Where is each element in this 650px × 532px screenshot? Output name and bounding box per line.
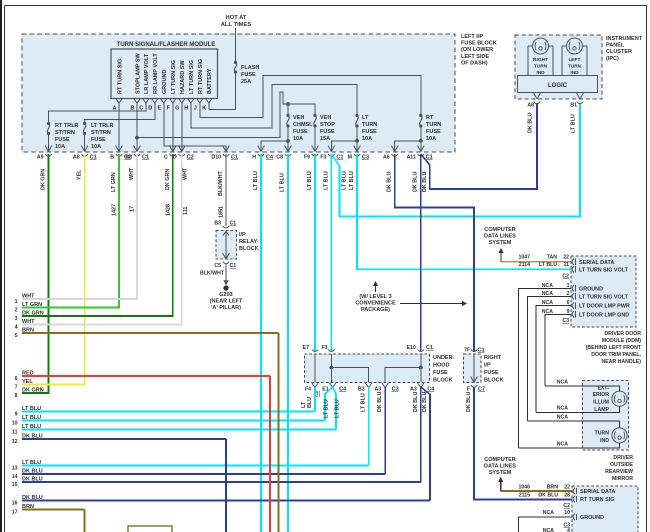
svg-text:11: 11 bbox=[564, 262, 570, 268]
svg-text:TURN: TURN bbox=[426, 122, 441, 128]
wire DK BLU branch from A11 to IPC pin A8 (right turn ind) bbox=[421, 103, 537, 192]
svg-text:BLU: BLU bbox=[307, 397, 313, 408]
svg-text:A9: A9 bbox=[37, 155, 44, 161]
svg-text:GROUND: GROUND bbox=[579, 286, 603, 292]
svg-text:PANEL: PANEL bbox=[606, 43, 625, 49]
connector crossing A9 bbox=[37, 146, 52, 161]
svg-text:4: 4 bbox=[15, 325, 18, 331]
svg-text:VEH: VEH bbox=[320, 115, 331, 121]
wire YEL from A8 to row 7 bbox=[22, 154, 85, 385]
svg-text:ALL TIMES: ALL TIMES bbox=[221, 22, 252, 28]
wire LT BLU 2114 from M/C3 to DDM pin 11 bbox=[349, 154, 571, 269]
svg-text:COMPUTER: COMPUTER bbox=[484, 227, 516, 233]
module pin H (LT TURN SIG) bbox=[184, 60, 195, 112]
svg-text:RIGHT: RIGHT bbox=[484, 355, 502, 361]
svg-text:DK BLU: DK BLU bbox=[422, 172, 428, 192]
svg-text:BLK/WHT: BLK/WHT bbox=[218, 170, 224, 196]
svg-text:H: H bbox=[252, 155, 256, 161]
wire: pin F to cavity C bbox=[172, 103, 174, 152]
svg-text:INSTRUMENT: INSTRUMENT bbox=[606, 36, 643, 42]
svg-text:LEFT SIDE: LEFT SIDE bbox=[461, 54, 489, 60]
svg-text:A8: A8 bbox=[73, 155, 80, 161]
wire WHT 17 from B8 to row 1 bbox=[22, 154, 137, 299]
left I/P fuse block (dashed region) bbox=[22, 34, 455, 152]
IPC logic block bbox=[518, 76, 598, 93]
DDM pin 1 GROUND (NCA wire) bbox=[518, 283, 603, 448]
svg-text:(W/ LEVEL 3: (W/ LEVEL 3 bbox=[359, 294, 391, 300]
svg-text:(BEHIND LEFT FRONT: (BEHIND LEFT FRONT bbox=[586, 345, 642, 351]
underhood fuse block pin F4 bbox=[305, 383, 318, 393]
svg-text:ST/TRN: ST/TRN bbox=[55, 130, 75, 136]
wire row 15 (DK BLU) bbox=[12, 477, 421, 489]
svg-text:WHT: WHT bbox=[129, 167, 135, 180]
wire TAN 1047 serial data to DDM pin 22 bbox=[498, 248, 571, 262]
DDM pin 2 LT TURN SIG VOLT (NCA wire) bbox=[528, 291, 629, 421]
svg-text:LOGIC: LOGIC bbox=[548, 83, 568, 89]
svg-text:A6: A6 bbox=[383, 155, 390, 161]
svg-text:12: 12 bbox=[12, 439, 18, 445]
module pin K (BATTERY) bbox=[202, 68, 213, 111]
svg-text:M: M bbox=[348, 155, 352, 161]
svg-text:DK BLU: DK BLU bbox=[528, 113, 534, 133]
fuse: LT TURN FUSE 10A bbox=[355, 114, 377, 142]
wire row 14 (DK BLU) bbox=[12, 469, 385, 481]
svg-text:1047: 1047 bbox=[518, 255, 530, 261]
svg-text:TAN: TAN bbox=[547, 255, 558, 261]
svg-text:DK BLU: DK BLU bbox=[412, 172, 418, 192]
wire row 2 (LT GRN) bbox=[15, 302, 119, 314]
svg-text:RELAY: RELAY bbox=[239, 239, 257, 245]
svg-text:B1: B1 bbox=[570, 103, 577, 109]
svg-text:J: J bbox=[194, 106, 197, 112]
svg-text:DATA LINES: DATA LINES bbox=[484, 234, 516, 240]
svg-text:CLUSTER: CLUSTER bbox=[606, 49, 632, 55]
wire LT BLU F4 to row 9 bbox=[301, 387, 315, 412]
wire NCA to ext illum lamp gnd bbox=[536, 406, 619, 413]
svg-text:FUSE: FUSE bbox=[426, 129, 441, 135]
svg-text:GROUND: GROUND bbox=[580, 515, 604, 521]
svg-text:HAZARD SW: HAZARD SW bbox=[180, 60, 186, 94]
svg-text:DK BLU: DK BLU bbox=[422, 392, 428, 412]
svg-text:8: 8 bbox=[15, 393, 18, 399]
connector crossing D10 bbox=[211, 146, 238, 161]
wire NCA to mirror turn ind pwr bbox=[528, 415, 620, 428]
wire: LT TURN fuse to crossings M and F3 bbox=[331, 126, 359, 152]
svg-text:11: 11 bbox=[12, 430, 18, 436]
IPC pin A8 bbox=[527, 93, 540, 133]
svg-text:A3: A3 bbox=[374, 387, 381, 393]
wire LT BLU from H/C4 down to bottom edge bbox=[253, 154, 261, 532]
wire BRN row 5 drop to bottom bbox=[278, 333, 280, 532]
connector crossing C bbox=[164, 146, 176, 161]
svg-text:CONVENIENCE: CONVENIENCE bbox=[355, 301, 396, 307]
IPC pin B1 bbox=[570, 93, 583, 133]
svg-text:SYSTEM: SYSTEM bbox=[489, 470, 512, 476]
svg-text:NCA: NCA bbox=[557, 380, 568, 386]
svg-text:LT: LT bbox=[362, 115, 369, 121]
svg-text:BLOCK: BLOCK bbox=[433, 378, 453, 384]
svg-text:1428: 1428 bbox=[165, 204, 171, 216]
svg-text:ILLUM: ILLUM bbox=[593, 400, 609, 406]
wire row 3 (DK GRN) bbox=[15, 311, 173, 323]
svg-text:1046: 1046 bbox=[518, 485, 530, 491]
connector C2 tag under pin F4 bbox=[314, 391, 320, 398]
wire DK BLU row 12 drop to bottom bbox=[225, 439, 227, 532]
labels for DK BLU 2115 wire bbox=[519, 493, 570, 499]
wire: pin B (stoplamp sw) junction to CHMSL/STOP fuses bbox=[135, 92, 315, 152]
svg-text:COMPUTER: COMPUTER bbox=[484, 457, 516, 463]
svg-text:B3: B3 bbox=[358, 387, 365, 393]
svg-text:E10: E10 bbox=[407, 345, 416, 351]
svg-text:14: 14 bbox=[12, 474, 18, 480]
svg-text:PACKAGE): PACKAGE) bbox=[361, 307, 390, 313]
svg-text:1: 1 bbox=[15, 299, 18, 305]
svg-text:E: E bbox=[157, 106, 161, 112]
svg-text:LT TURN SIG: LT TURN SIG bbox=[171, 60, 177, 94]
wire: VEH CHMSL fuse to crossings C8 and H bbox=[261, 126, 290, 152]
labels for LT BLU 2114 wire bbox=[519, 262, 569, 268]
svg-text:FUSE: FUSE bbox=[241, 72, 256, 78]
wire: pin E (ground) to cavity D10 bbox=[164, 103, 226, 152]
svg-text:DK GRN: DK GRN bbox=[165, 169, 171, 190]
fuse: LT TRLR ST/TRN FUSE 10A bbox=[83, 122, 114, 152]
svg-text:LT BLU: LT BLU bbox=[307, 171, 313, 190]
module pin E (GROUND) bbox=[157, 70, 168, 112]
svg-text:DRIVER DOOR: DRIVER DOOR bbox=[604, 331, 641, 337]
svg-text:F3: F3 bbox=[321, 345, 327, 351]
DDM caption bbox=[586, 331, 642, 365]
svg-text:17: 17 bbox=[12, 510, 18, 516]
svg-text:15: 15 bbox=[12, 482, 18, 488]
wire row 16 (DK BLU) bbox=[12, 495, 430, 507]
wire NCA to ext illum lamp pwr bbox=[545, 380, 620, 392]
svg-text:RT TURN SIG: RT TURN SIG bbox=[580, 497, 614, 503]
wire DK BLU A3/C4 to row 15 bbox=[413, 387, 421, 482]
svg-text:LT BLU: LT BLU bbox=[349, 171, 355, 190]
wire LT GRN 1427 from B to row 2 bbox=[22, 154, 119, 308]
svg-text:DK BLU: DK BLU bbox=[466, 392, 472, 412]
svg-text:28: 28 bbox=[564, 493, 570, 499]
module pin F (LT TURN SIG) bbox=[167, 60, 177, 112]
wire: RT TURN fuse to crossings A11 and A6 bbox=[395, 126, 423, 152]
svg-text:B: B bbox=[110, 155, 114, 161]
svg-text:A11: A11 bbox=[407, 155, 416, 161]
svg-text:RT TURN SIG: RT TURN SIG bbox=[117, 59, 123, 94]
svg-text:WHT: WHT bbox=[183, 167, 189, 180]
connector crossing F9 bbox=[304, 146, 318, 161]
svg-text:DK BLU: DK BLU bbox=[538, 493, 558, 499]
wire DK GRN from A9 to row 8 bbox=[22, 154, 49, 393]
wire WHT 111 from D to row 4 bbox=[22, 154, 189, 325]
fuse: VEH STOP FUSE 15A bbox=[313, 114, 335, 142]
connector crossing A11 bbox=[407, 146, 433, 161]
svg-text:REARVIEW: REARVIEW bbox=[605, 469, 633, 475]
svg-text:FUSE: FUSE bbox=[55, 137, 70, 143]
wire DK BLU from A6 to right I/P fuse block bbox=[387, 154, 474, 352]
fuse: RT TURN FUSE 10A bbox=[419, 114, 441, 142]
svg-text:VEH: VEH bbox=[293, 115, 304, 121]
svg-text:RT TURN SIG: RT TURN SIG bbox=[198, 59, 204, 94]
wire DK BLU A3 to row 14 bbox=[377, 387, 385, 474]
svg-text:NCA: NCA bbox=[557, 406, 568, 412]
svg-text:LT GRN: LT GRN bbox=[111, 172, 117, 192]
svg-text:FLASH: FLASH bbox=[241, 65, 259, 71]
svg-text:F3: F3 bbox=[320, 155, 326, 161]
wire row 1 (WHT) bbox=[15, 294, 137, 306]
svg-text:RT: RT bbox=[426, 115, 434, 121]
wire: pin C (LR lamp volt) to RT TRLR fuse bbox=[49, 103, 146, 124]
svg-text:I/P: I/P bbox=[239, 232, 246, 238]
underhood fuse block pin B3 bbox=[358, 383, 372, 393]
svg-text:LT BLU: LT BLU bbox=[324, 399, 330, 418]
svg-text:'A' PILLAR): 'A' PILLAR) bbox=[211, 305, 241, 311]
ground G203 bbox=[210, 285, 243, 311]
svg-text:FUSE: FUSE bbox=[362, 129, 377, 135]
underhood fuse block internal wires bbox=[315, 354, 423, 383]
svg-text:E7: E7 bbox=[303, 345, 309, 351]
module pin A (RT TURN SIG) bbox=[113, 59, 124, 112]
svg-text:TURN: TURN bbox=[534, 64, 548, 70]
svg-text:(ON LOWER: (ON LOWER bbox=[461, 47, 493, 53]
svg-text:BLOCK: BLOCK bbox=[239, 246, 259, 252]
IPC label bbox=[606, 36, 643, 62]
svg-text:BLOCK: BLOCK bbox=[484, 378, 504, 384]
svg-text:B8: B8 bbox=[125, 155, 132, 161]
svg-text:TURN: TURN bbox=[362, 122, 377, 128]
passenger door module (bottom, cut off) bbox=[572, 486, 638, 532]
svg-text:SYSTEM: SYSTEM bbox=[489, 240, 512, 246]
svg-text:F: F bbox=[467, 387, 470, 393]
battery feed: HOT AT ALL TIMES bbox=[221, 15, 252, 62]
svg-text:LT BLU: LT BLU bbox=[361, 393, 367, 412]
svg-text:D: D bbox=[148, 106, 152, 112]
svg-text:LT BLU: LT BLU bbox=[539, 262, 557, 268]
connector crossing B8 bbox=[125, 146, 149, 161]
svg-text:G203: G203 bbox=[219, 292, 232, 298]
svg-text:10: 10 bbox=[12, 421, 18, 427]
svg-text:TURN SIGNAL/FLASHER MODULE: TURN SIGNAL/FLASHER MODULE bbox=[117, 42, 216, 48]
turn indicator lamp (mirror) bbox=[595, 428, 628, 444]
svg-text:1851: 1851 bbox=[219, 206, 225, 218]
wire DK BLU C4 branch to row 16 bbox=[421, 387, 430, 501]
svg-text:LT BLU: LT BLU bbox=[253, 171, 259, 190]
svg-text:10A: 10A bbox=[426, 136, 436, 142]
connector crossing A6 bbox=[383, 146, 398, 161]
svg-text:YEL: YEL bbox=[77, 169, 83, 180]
svg-text:DK GRN: DK GRN bbox=[41, 169, 47, 190]
svg-text:TURN: TURN bbox=[568, 64, 582, 70]
svg-text:CHMSL: CHMSL bbox=[293, 122, 313, 128]
left turn indicator lamp bbox=[562, 38, 587, 76]
driver outside rearview mirror assembly box bbox=[583, 381, 629, 451]
DDM pin row SERIAL DATA bbox=[572, 259, 614, 266]
svg-text:DK BLU: DK BLU bbox=[387, 172, 393, 192]
wire row 5 (BRN) bbox=[15, 328, 279, 340]
svg-text:LT TRLR: LT TRLR bbox=[91, 123, 114, 129]
PDM pin row (cut off) bbox=[543, 528, 570, 532]
wire DK BLU 2115 right I/P fuse block to PDM pin 28 bbox=[466, 387, 572, 500]
svg-text:DATA LINES: DATA LINES bbox=[484, 464, 516, 470]
wire BLK/WHT 1851 from D10 to I/P relay block bbox=[218, 154, 226, 226]
svg-text:FUSE: FUSE bbox=[320, 129, 335, 135]
wire RED row 6 drop to bottom bbox=[269, 376, 271, 532]
svg-text:IND: IND bbox=[600, 438, 609, 444]
PDM pin 10 ground (NCA wire) bbox=[518, 510, 604, 532]
wire: pin A to cavity B bbox=[118, 103, 120, 152]
svg-text:25A: 25A bbox=[241, 79, 251, 85]
wire: pin J (RT turn sig) to RT TURN fuse bbox=[200, 75, 421, 117]
svg-text:GROUND: GROUND bbox=[162, 70, 168, 94]
svg-text:6: 6 bbox=[15, 376, 18, 382]
svg-text:LT BLU: LT BLU bbox=[335, 399, 341, 418]
svg-text:LT TURN SIG VOLT: LT TURN SIG VOLT bbox=[579, 267, 629, 273]
svg-text:LT DOOR LMP GND: LT DOOR LMP GND bbox=[579, 312, 629, 318]
wire LT BLU B3 to row 13 bbox=[361, 387, 369, 466]
svg-text:DK BLU: DK BLU bbox=[377, 392, 383, 412]
svg-text:FUSE BLOCK: FUSE BLOCK bbox=[461, 41, 497, 47]
connector crossing B bbox=[110, 146, 131, 161]
svg-text:2: 2 bbox=[15, 308, 18, 314]
annotation: w/ level 3 convenience package bbox=[355, 281, 467, 313]
svg-text:10A: 10A bbox=[293, 136, 303, 142]
PDM pin 28 RT turn sig bbox=[573, 496, 614, 503]
svg-text:BRN: BRN bbox=[547, 485, 558, 491]
svg-text:F9: F9 bbox=[304, 155, 310, 161]
svg-text:RR LAMP VOLT: RR LAMP VOLT bbox=[153, 53, 159, 94]
svg-text:BATTERY: BATTERY bbox=[207, 68, 213, 94]
svg-text:C5: C5 bbox=[214, 263, 221, 269]
PDM pin 22 serial data bbox=[573, 488, 615, 495]
wire row 11 (LT BLU) bbox=[12, 424, 336, 436]
computer data lines system (lower) bbox=[484, 457, 516, 476]
connector crossing C8 bbox=[276, 146, 291, 161]
wire BRN row 17 drop to bottom bbox=[84, 510, 86, 532]
underhood fuse block pin A3 bbox=[410, 383, 435, 393]
svg-text:NCA: NCA bbox=[557, 441, 568, 447]
svg-text:15A: 15A bbox=[320, 136, 330, 142]
svg-text:FUSE: FUSE bbox=[484, 370, 499, 376]
PDM connector C2 label bbox=[563, 503, 570, 509]
connector crossing D bbox=[173, 146, 194, 161]
wire DK BLU from A11 to underhood fuse block pin E10 bbox=[412, 154, 421, 352]
svg-text:7: 7 bbox=[15, 385, 18, 391]
underhood fuse block pin A3 bbox=[374, 383, 398, 393]
svg-text:LT BLU: LT BLU bbox=[323, 171, 329, 190]
svg-text:10: 10 bbox=[564, 510, 570, 516]
right I/P fuse block bbox=[464, 348, 504, 393]
wire row 8 (DK GRN) bbox=[15, 388, 49, 400]
svg-text:NCA: NCA bbox=[543, 510, 554, 516]
connector crossing H bbox=[252, 146, 274, 161]
svg-text:FUSE: FUSE bbox=[91, 137, 106, 143]
underhood fuse block pin E1 bbox=[322, 383, 347, 393]
wire: flash fuse to module pin K (battery) bbox=[209, 72, 236, 110]
PDM connector C3 label bbox=[563, 523, 570, 529]
driver outside rearview mirror caption bbox=[605, 455, 633, 482]
wire NCA to mirror turn ind gnd bbox=[518, 441, 619, 448]
unlabeled module box at page bottom bbox=[128, 526, 172, 532]
svg-text:LEFT I/P: LEFT I/P bbox=[461, 34, 483, 40]
connector crossing M bbox=[348, 146, 369, 161]
svg-text:LT BLU: LT BLU bbox=[571, 114, 577, 133]
wire: pin G to cavity D bbox=[181, 103, 183, 152]
computer data lines system (upper) bbox=[484, 227, 516, 246]
svg-text:ST/TRN: ST/TRN bbox=[91, 130, 111, 136]
wire LT BLU E1 to row 10 bbox=[324, 387, 333, 421]
svg-text:SERIAL DATA: SERIAL DATA bbox=[580, 489, 615, 495]
svg-text:F4: F4 bbox=[305, 387, 311, 393]
DDM pin row LT TURN SIG VOLT bbox=[572, 266, 629, 273]
svg-text:D10: D10 bbox=[211, 155, 221, 161]
svg-text:A8: A8 bbox=[527, 103, 534, 109]
wire LT BLU from C8 down to bottom edge bbox=[280, 154, 289, 532]
left I/P fuse block label bbox=[461, 34, 497, 66]
svg-text:(IPC): (IPC) bbox=[606, 56, 619, 62]
svg-text:TURN: TURN bbox=[595, 431, 610, 437]
DDM pin 6 LT DOOR LMP PWR (NCA wire) bbox=[536, 300, 630, 412]
wire row 17 (BRN) bbox=[12, 504, 85, 516]
instrument panel cluster (IPC) bbox=[515, 35, 602, 99]
fuse F_FLASH: FLASH FUSE 25A bbox=[234, 61, 259, 85]
svg-text:C8: C8 bbox=[276, 155, 283, 161]
wire row 6 (RED) bbox=[15, 371, 270, 383]
DDM connector C2 label bbox=[562, 274, 569, 280]
svg-text:10A: 10A bbox=[362, 136, 372, 142]
module pin B (STOPLAMP SW) bbox=[131, 52, 142, 111]
svg-text:DRIVER: DRIVER bbox=[613, 455, 633, 461]
wire BRN 1046 serial data to PDM pin 22 bbox=[498, 477, 572, 491]
svg-text:C: C bbox=[164, 155, 168, 161]
svg-text:SERIAL DATA: SERIAL DATA bbox=[579, 260, 614, 266]
svg-text:111: 111 bbox=[183, 207, 189, 215]
svg-text:9: 9 bbox=[15, 412, 18, 418]
wire BLK/WHT relay block to ground G203 bbox=[200, 264, 229, 286]
module pin D (RR LAMP VOLT) bbox=[148, 53, 159, 112]
wire row 13 (LT BLU) bbox=[12, 460, 369, 472]
svg-text:(NEAR LEFT: (NEAR LEFT bbox=[210, 299, 243, 305]
wire row 7 (YEL) bbox=[15, 379, 85, 391]
svg-text:LT DOOR LMP PWR: LT DOOR LMP PWR bbox=[579, 304, 630, 310]
svg-text:OF DASH): OF DASH) bbox=[461, 60, 488, 66]
connector crossing F3 bbox=[320, 146, 343, 161]
wire: pin H (LT turn sig) to LT TURN fuse bbox=[191, 84, 357, 128]
connector crossing A8 bbox=[73, 146, 97, 161]
svg-text:DK BLU: DK BLU bbox=[413, 392, 419, 412]
wire row 9 (LT BLU) bbox=[15, 406, 314, 418]
svg-text:22: 22 bbox=[563, 255, 569, 261]
svg-text:STOPLAMP SW: STOPLAMP SW bbox=[135, 52, 141, 94]
svg-text:ERIOR: ERIOR bbox=[593, 392, 610, 398]
svg-text:17: 17 bbox=[130, 206, 136, 212]
svg-text:HOT AT: HOT AT bbox=[226, 15, 247, 21]
svg-text:RIGHT: RIGHT bbox=[533, 57, 548, 63]
svg-text:DOOR TRIM PANEL,: DOOR TRIM PANEL, bbox=[591, 352, 641, 358]
wire row 10 (LT BLU) bbox=[12, 415, 325, 427]
svg-text:UNDER-: UNDER- bbox=[433, 355, 455, 361]
svg-text:LEFT: LEFT bbox=[569, 57, 581, 63]
fuse: RT TRLR ST/TRN FUSE 10A bbox=[47, 122, 79, 152]
wire LT BLU C4 to row 11 bbox=[333, 387, 341, 430]
svg-text:H: H bbox=[184, 106, 188, 112]
svg-text:LT BLU: LT BLU bbox=[280, 173, 286, 192]
svg-text:NCA: NCA bbox=[557, 415, 568, 421]
svg-text:1427: 1427 bbox=[112, 204, 118, 216]
svg-text:LT TURN SIG VOLT: LT TURN SIG VOLT bbox=[579, 294, 629, 300]
svg-text:2115: 2115 bbox=[519, 493, 530, 499]
wire LT BLU from F9 to underhood fuse block pin E7 bbox=[307, 154, 315, 352]
svg-text:7F: 7F bbox=[464, 348, 470, 354]
svg-text:MODULE (DDM): MODULE (DDM) bbox=[602, 338, 641, 344]
